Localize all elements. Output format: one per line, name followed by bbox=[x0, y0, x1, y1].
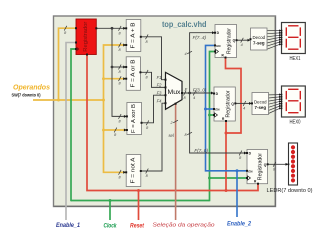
svg-text:7-seg: 7-seg bbox=[253, 40, 265, 45]
node SW junction or-B bbox=[102, 77, 105, 80]
node Clock junction reg3 bbox=[208, 177, 211, 180]
wire Clock horizontal trunk bbox=[71, 200, 210, 202]
svg-text:Enable_2: Enable_2 bbox=[227, 222, 252, 228]
svg-text:F2: F2 bbox=[157, 83, 163, 88]
wire Clock branch to register2 bbox=[210, 114, 215, 116]
node A junction top bbox=[111, 27, 114, 30]
adder block F = A + B bbox=[126, 20, 141, 52]
svg-text:F1: F1 bbox=[157, 75, 162, 80]
wire A bus riser bbox=[112, 28, 127, 116]
LED bar LEDR bbox=[289, 143, 298, 185]
not pins bbox=[125, 171, 127, 173]
wire register2 Q to decoder bbox=[235, 102, 250, 104]
svg-text:sel: sel bbox=[169, 133, 174, 138]
wire Clock branch to register3 bbox=[210, 177, 248, 179]
wire mux output F bbox=[182, 92, 214, 94]
wire Clock label riser bbox=[109, 201, 111, 221]
seven-segment display HEX0 bbox=[282, 86, 306, 117]
wire not output to mux F4 bbox=[141, 103, 166, 171]
svg-text:EN: EN bbox=[215, 108, 219, 112]
arrowheads into blocks bbox=[123, 27, 126, 30]
node SW junction xor-B bbox=[102, 129, 105, 132]
svg-text:4: 4 bbox=[241, 43, 243, 47]
svg-text:Q: Q bbox=[231, 102, 234, 106]
mux U_MUX bbox=[166, 72, 183, 109]
svg-text:top_calc.vhd: top_calc.vhd bbox=[162, 20, 207, 29]
register U_REG1 (HEX1) bbox=[215, 25, 237, 58]
svg-text:HEX0: HEX0 bbox=[290, 120, 301, 126]
svg-text:F(7..0): F(7..0) bbox=[194, 148, 208, 153]
wire SW riser to input register D bbox=[59, 28, 77, 101]
wire Clock left riser to input register bbox=[71, 49, 76, 201]
adder pins bbox=[125, 27, 127, 29]
node Clock junction reg2 bbox=[208, 114, 211, 117]
wire Clock right riser to registers bbox=[210, 52, 216, 202]
node Reset junction reg2 drop bbox=[225, 132, 228, 135]
svg-text:Clock: Clock bbox=[104, 223, 118, 229]
node F output junction bbox=[188, 92, 191, 95]
register U_REG2 (HEX0) bbox=[214, 87, 235, 121]
wire SW branch to xor-block B bbox=[104, 129, 127, 131]
svg-text:Registrador: Registrador bbox=[227, 28, 233, 54]
svg-text:Operandos: Operandos bbox=[13, 83, 50, 92]
svg-text:F = not A: F = not A bbox=[131, 157, 137, 184]
top-level entity box top_calc bbox=[54, 16, 276, 207]
wire registered operand A bus bbox=[96, 27, 126, 29]
input register (red) U_REG_IN bbox=[76, 19, 96, 55]
wire SW operand bus horizontal bbox=[33, 99, 104, 101]
decoder U_DEC2 Decod 7-seg bbox=[252, 93, 269, 115]
svg-text:Seleção da operação: Seleção da operação bbox=[153, 223, 215, 229]
wire Enable_2 label riser bbox=[236, 171, 238, 217]
node Enable_2 junction label riser bbox=[236, 169, 239, 172]
node SW junction at B riser bbox=[102, 99, 105, 102]
decoder U_DEC1 Decod 7-seg bbox=[251, 28, 268, 50]
not block F = not A bbox=[126, 155, 141, 187]
wire A bus branch to or-block bbox=[112, 66, 126, 68]
svg-text:Mux: Mux bbox=[168, 90, 181, 96]
node Reset junction trunk bbox=[225, 189, 228, 192]
svg-text:HEX1: HEX1 bbox=[290, 56, 301, 62]
svg-text:Decod: Decod bbox=[254, 99, 267, 104]
svg-text:Decod: Decod bbox=[253, 35, 266, 40]
svg-text:EN: EN bbox=[248, 169, 252, 173]
svg-text:F3: F3 bbox=[157, 90, 163, 95]
svg-text:7-seg: 7-seg bbox=[255, 105, 267, 110]
node Enable_2 junction reg2 bbox=[204, 108, 207, 111]
input register pins bbox=[75, 27, 77, 29]
wire F(7..0) branch to register3 bbox=[190, 93, 246, 153]
svg-text:F4: F4 bbox=[157, 98, 163, 103]
node Reset junction label riser bbox=[137, 189, 140, 192]
wire bundle decoder1 to HEX1 segments bbox=[267, 30, 280, 32]
svg-text:Registrador: Registrador bbox=[258, 153, 264, 180]
wire Reset label riser bbox=[138, 191, 140, 221]
svg-text:4: 4 bbox=[184, 52, 186, 56]
wire SW operand-B riser bbox=[104, 45, 127, 172]
wire Reset branch register1 bbox=[226, 58, 242, 134]
node SW junction at register riser bbox=[57, 99, 60, 102]
wire Selecao mux select bbox=[175, 103, 177, 220]
wire Enable_1 net bbox=[66, 43, 76, 221]
mux pins bbox=[165, 79, 167, 81]
xor pins bbox=[126, 115, 128, 117]
xor block F = A xor B bbox=[127, 103, 142, 135]
svg-text:4: 4 bbox=[243, 106, 245, 110]
wire SW branch to or-block B bbox=[104, 78, 127, 80]
svg-text:Q: Q bbox=[264, 163, 267, 167]
wire register1 Q to decoder bbox=[237, 39, 250, 41]
svg-text:Enable_1: Enable_1 bbox=[56, 223, 81, 229]
register U_REG3 (LEDR) bbox=[247, 150, 268, 184]
or block F = A or B bbox=[126, 57, 140, 91]
svg-text:F(3..0): F(3..0) bbox=[193, 87, 207, 92]
svg-text:4: 4 bbox=[193, 96, 195, 100]
svg-text:EN: EN bbox=[216, 44, 220, 48]
svg-text:Q: Q bbox=[233, 39, 236, 43]
seven-segment display HEX1 bbox=[282, 23, 306, 54]
wire Enable_2 branch to register2 bbox=[206, 108, 215, 110]
wire register3 Q to LEDs bbox=[268, 163, 287, 165]
node Clock junction at label riser bbox=[109, 199, 112, 202]
svg-text:Registrador: Registrador bbox=[225, 90, 231, 117]
svg-text:Registrador: Registrador bbox=[83, 21, 89, 51]
svg-text:F = A or B: F = A or B bbox=[130, 59, 136, 88]
svg-text:F = A xor B: F = A xor B bbox=[131, 103, 137, 133]
wire Enable_2 riser and horizontal bbox=[206, 45, 248, 170]
wire xor output to mux F3 bbox=[142, 95, 166, 123]
svg-text:F = A + B: F = A + B bbox=[131, 22, 137, 49]
wire Reset branch registers 1-2 bbox=[225, 121, 227, 191]
wire bundle decoder2 to HEX0 segments bbox=[269, 94, 280, 96]
svg-text:LEDR(7 downto 0): LEDR(7 downto 0) bbox=[267, 188, 313, 194]
wire F(7..4) branch to register1 bbox=[190, 33, 214, 93]
wire or output to mux F2 bbox=[140, 72, 165, 87]
node A junction or bbox=[111, 66, 114, 69]
wire Reset trunk bbox=[87, 55, 258, 191]
svg-text:F(7..4): F(7..4) bbox=[193, 35, 207, 40]
or pins bbox=[125, 66, 127, 68]
svg-text:SW(7 downto 0): SW(7 downto 0) bbox=[12, 92, 41, 97]
wire adder output to mux F1 bbox=[141, 37, 166, 80]
bus width slash marks bbox=[64, 26, 67, 31]
svg-text:Reset: Reset bbox=[130, 223, 145, 229]
